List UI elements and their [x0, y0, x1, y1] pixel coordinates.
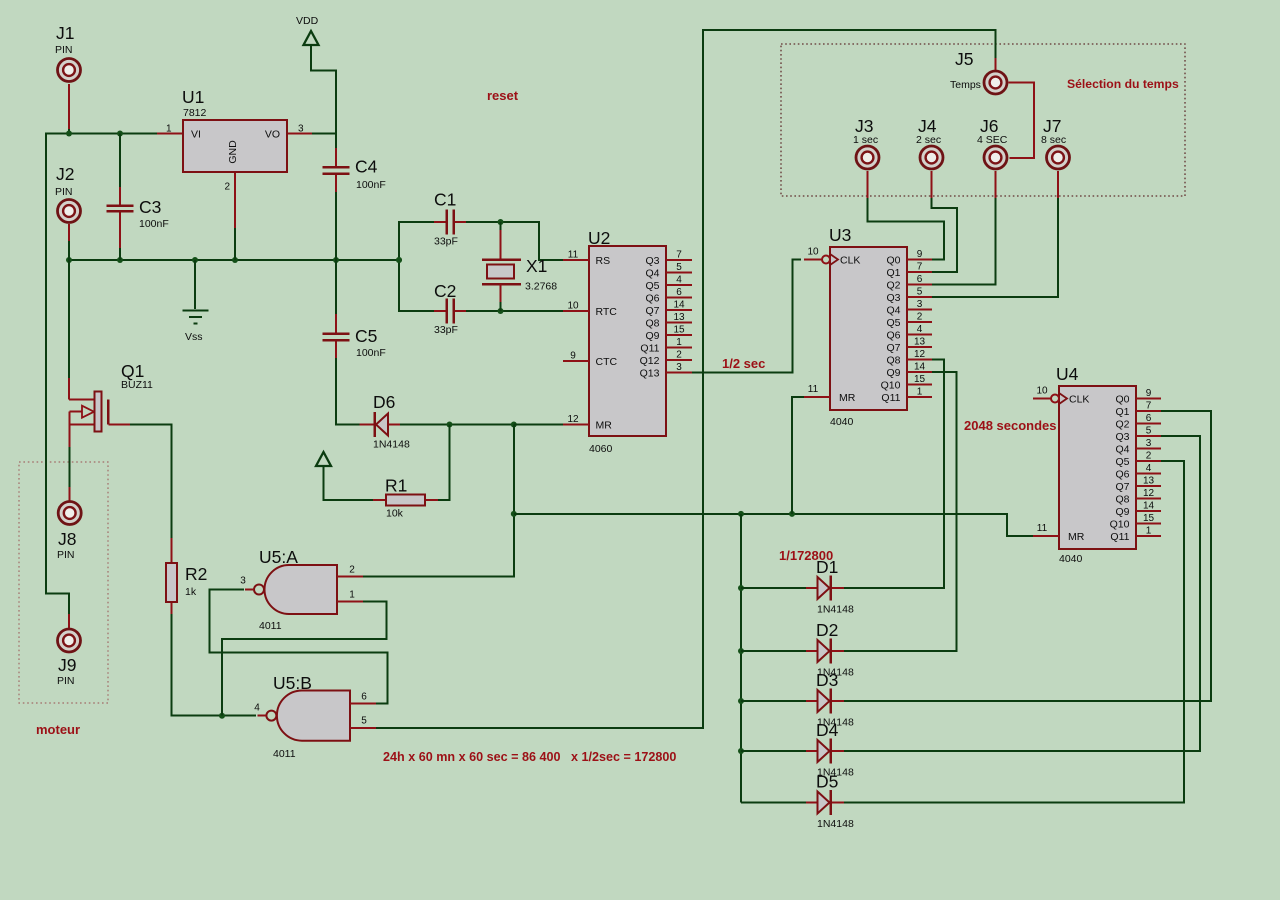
capacitor C1 33pF [434, 190, 466, 248]
svg-text:4040: 4040 [1059, 553, 1083, 565]
svg-text:2: 2 [224, 182, 230, 193]
diode D4 1N4148 [806, 720, 854, 779]
resistor R2 1k [166, 538, 207, 614]
power VDD arrow near R1 [316, 452, 331, 466]
svg-text:C3: C3 [139, 197, 161, 217]
wire U3 Q9 down to D2 cathode [844, 372, 957, 651]
capacitor C3 100nF [107, 187, 169, 248]
annotation timing formula [383, 750, 676, 764]
annotation moteur [36, 722, 80, 737]
svg-text:3: 3 [1146, 438, 1152, 449]
svg-text:D4: D4 [816, 720, 839, 740]
svg-text:1: 1 [1146, 526, 1152, 537]
svg-text:Q12: Q12 [640, 355, 660, 367]
svg-text:6: 6 [917, 274, 923, 285]
svg-text:U5:A: U5:A [259, 547, 298, 567]
svg-text:14: 14 [1143, 501, 1155, 512]
svg-text:33pF: 33pF [434, 236, 458, 248]
svg-text:2: 2 [676, 350, 682, 361]
wire C3 top lead [119, 134, 121, 188]
wire U3 MR riser [792, 397, 805, 514]
wire C1 right to X1 top and U2 RS [466, 219, 563, 260]
svg-text:1N4148: 1N4148 [817, 818, 854, 830]
svg-text:1N4148: 1N4148 [817, 604, 854, 616]
wire U3 Q8 down to D1 cathode [844, 360, 944, 589]
NAND gate U5:B 4011 [254, 673, 376, 760]
svg-text:2: 2 [1146, 451, 1152, 462]
svg-text:Q8: Q8 [886, 354, 900, 366]
wire U2 Q13 to U3 CLK (1/2 sec net) [692, 260, 801, 373]
svg-text:9: 9 [1146, 388, 1152, 399]
svg-text:Q4: Q4 [886, 304, 900, 316]
svg-text:MR: MR [1068, 531, 1085, 543]
svg-text:J8: J8 [58, 529, 76, 549]
svg-text:VDD: VDD [296, 15, 319, 27]
svg-text:D5: D5 [816, 772, 838, 792]
svg-text:2048 secondes: 2048 secondes [964, 418, 1057, 433]
svg-text:J6: J6 [980, 116, 998, 136]
wire U5:B output to U5:A pin1 feedback [222, 602, 387, 716]
svg-text:4011: 4011 [259, 620, 282, 632]
svg-text:7: 7 [917, 262, 923, 273]
svg-text:14: 14 [673, 300, 685, 311]
svg-text:5: 5 [676, 262, 682, 273]
svg-text:Q1: Q1 [886, 267, 900, 279]
annotation Selection du temps [1067, 77, 1179, 91]
wire net J1 to U1 VI input (top left rail) [46, 129, 157, 614]
resistor R1 10k [373, 476, 438, 520]
connector J8 [57, 487, 81, 561]
svg-text:12: 12 [914, 349, 926, 360]
regulator U1 7812 [157, 87, 312, 228]
svg-text:J4: J4 [918, 116, 937, 136]
svg-text:100nF: 100nF [139, 218, 169, 230]
svg-text:15: 15 [914, 374, 926, 385]
wire U1 pin2 GND to bus [234, 228, 236, 260]
diode D3 1N4148 [806, 670, 854, 729]
svg-text:2 sec: 2 sec [916, 134, 941, 146]
wire U4 Q3 down to D4 cathode [844, 436, 1200, 751]
NAND gate U5:A 4011 [240, 547, 363, 632]
wire C4 bottom to bus [335, 192, 337, 260]
wire J2 to Q1 drain [68, 241, 70, 378]
svg-text:U4: U4 [1056, 364, 1079, 384]
svg-text:4: 4 [676, 275, 682, 286]
crystal X1 3.2768 [482, 230, 557, 302]
svg-text:Q7: Q7 [645, 305, 659, 317]
svg-text:D3: D3 [816, 670, 838, 690]
wire VDD arrow to U1 VO and C4 [311, 45, 336, 148]
svg-text:CLK: CLK [1069, 393, 1089, 405]
connector J4 [916, 116, 943, 198]
svg-text:U3: U3 [829, 225, 851, 245]
wire oscillator node C1/C2 left leg [396, 222, 434, 311]
svg-text:9: 9 [917, 249, 923, 260]
svg-text:Q13: Q13 [640, 367, 660, 379]
wire D2 anode to diode bus [741, 650, 806, 652]
svg-text:4 SEC: 4 SEC [977, 134, 1008, 146]
svg-text:U5:B: U5:B [273, 673, 312, 693]
connector J7 [1041, 116, 1070, 198]
svg-text:3: 3 [298, 124, 304, 135]
svg-text:33pF: 33pF [434, 324, 458, 336]
IC U4 4040 [1033, 364, 1161, 565]
wire D1 anode to diode bus [741, 587, 806, 589]
wire J3 to U3 Q0 [868, 198, 945, 260]
svg-text:11: 11 [808, 384, 819, 395]
connector J2 [55, 164, 81, 241]
svg-text:U2: U2 [588, 228, 610, 248]
svg-text:J1: J1 [56, 23, 74, 43]
wire C5 bottom to D6 anode row [336, 358, 360, 425]
svg-text:5: 5 [1146, 426, 1152, 437]
connector J5 Temps [950, 49, 1007, 94]
diode D6 1N4148 [360, 392, 410, 451]
svg-text:5: 5 [361, 716, 367, 727]
svg-text:MR: MR [839, 392, 856, 404]
svg-text:13: 13 [1143, 476, 1155, 487]
svg-text:PIN: PIN [55, 186, 73, 198]
capacitor C5 100nF [323, 314, 386, 359]
svg-text:J2: J2 [56, 164, 74, 184]
svg-text:1: 1 [349, 590, 355, 601]
wire D3 anode to diode bus [741, 700, 806, 702]
svg-text:6: 6 [361, 692, 367, 703]
svg-text:CLK: CLK [840, 254, 860, 266]
svg-text:7: 7 [676, 250, 682, 261]
svg-text:24h x 60 mn x 60 sec = 86 400: 24h x 60 mn x 60 sec = 86 400 x 1/2sec =… [383, 750, 676, 764]
svg-text:Q5: Q5 [1115, 456, 1129, 468]
svg-text:Q11: Q11 [1110, 531, 1129, 543]
svg-text:3: 3 [676, 362, 682, 373]
svg-text:15: 15 [673, 325, 685, 336]
svg-text:9: 9 [570, 351, 576, 362]
svg-text:X1: X1 [526, 256, 547, 276]
svg-text:Q9: Q9 [645, 330, 659, 342]
svg-text:RTC: RTC [596, 306, 618, 318]
diode D1 1N4148 [806, 557, 854, 616]
svg-text:Q7: Q7 [1115, 481, 1129, 493]
wire master reset rail y=514 [514, 511, 1033, 536]
svg-text:10: 10 [1036, 386, 1048, 397]
svg-text:7: 7 [1146, 401, 1152, 412]
svg-text:Q3: Q3 [1115, 431, 1129, 443]
wire Q1 source to J8 [69, 447, 71, 487]
svg-text:MR: MR [596, 419, 613, 431]
svg-text:Q6: Q6 [1115, 468, 1129, 480]
svg-text:11: 11 [1037, 523, 1048, 534]
connector J6 [977, 116, 1008, 198]
svg-text:1 sec: 1 sec [853, 134, 878, 146]
wire bus to C5 top [335, 260, 337, 314]
svg-text:6: 6 [1146, 413, 1152, 424]
annotation 1/2 sec [722, 356, 765, 371]
svg-text:1: 1 [676, 337, 682, 348]
svg-text:1: 1 [917, 387, 923, 398]
wire J6 to U3 Q2 [930, 198, 996, 285]
svg-text:Q6: Q6 [886, 329, 900, 341]
svg-text:Q7: Q7 [886, 342, 900, 354]
wire U4 Q1 down to D3 cathode [844, 411, 1211, 701]
svg-text:C4: C4 [355, 157, 378, 177]
svg-text:Q11: Q11 [881, 392, 900, 404]
svg-text:Q0: Q0 [1115, 393, 1129, 405]
svg-text:10: 10 [807, 247, 819, 258]
svg-text:Q2: Q2 [886, 279, 900, 291]
svg-text:R2: R2 [185, 564, 207, 584]
wire R2 bottom to U5:B output [172, 614, 257, 719]
svg-text:11: 11 [568, 250, 579, 261]
wire D6 cathode to MR junction [400, 422, 564, 428]
svg-text:Q8: Q8 [1115, 493, 1129, 505]
svg-text:12: 12 [1143, 488, 1155, 499]
wire J5 jumper bracket to J6 [1009, 83, 1035, 159]
svg-text:13: 13 [914, 337, 926, 348]
svg-text:1N4148: 1N4148 [373, 439, 410, 451]
svg-text:1/2 sec: 1/2 sec [722, 356, 765, 371]
wire diode common bus x=741 [738, 514, 744, 803]
svg-text:8 sec: 8 sec [1041, 134, 1066, 146]
svg-text:Q4: Q4 [645, 267, 659, 279]
svg-text:U1: U1 [182, 87, 204, 107]
svg-text:13: 13 [673, 312, 685, 323]
svg-text:C5: C5 [355, 326, 377, 346]
svg-text:RS: RS [596, 255, 611, 267]
wire C3 bottom to bus [119, 248, 121, 260]
svg-text:1: 1 [166, 124, 172, 135]
svg-text:Q0: Q0 [886, 254, 900, 266]
svg-text:6: 6 [676, 287, 682, 298]
moteur dashed box [19, 462, 108, 703]
capacitor C2 33pF [434, 281, 466, 336]
connector J1 [55, 23, 81, 129]
svg-text:100nF: 100nF [356, 179, 386, 191]
svg-text:4: 4 [917, 324, 923, 335]
svg-text:D6: D6 [373, 392, 395, 412]
wire VSS ground stem [194, 260, 196, 309]
svg-text:Q5: Q5 [645, 280, 659, 292]
wire VSS ground bus y=260 [66, 257, 402, 263]
annotation 2048 secondes [964, 418, 1057, 433]
svg-text:Q10: Q10 [1110, 518, 1130, 530]
svg-text:2: 2 [349, 565, 355, 576]
power VDD arrow top [296, 15, 319, 45]
wire R1 left leg to VDD arrow [324, 466, 374, 500]
svg-text:4: 4 [254, 703, 260, 714]
svg-text:14: 14 [914, 362, 926, 373]
capacitor C4 100nF [323, 148, 386, 192]
connector J9 [57, 614, 81, 687]
svg-text:R1: R1 [385, 476, 407, 496]
svg-text:J9: J9 [58, 655, 76, 675]
svg-text:C1: C1 [434, 190, 456, 210]
svg-text:Q9: Q9 [1115, 506, 1129, 518]
wire reset net U5:B pin5 to J5 [376, 30, 996, 728]
wire MR net down to U5:A pin2 [361, 425, 517, 577]
svg-text:VO: VO [265, 129, 280, 141]
svg-text:Q5: Q5 [886, 317, 900, 329]
svg-text:moteur: moteur [36, 722, 80, 737]
IC U2 4060 [563, 228, 692, 455]
wire J7 to U3 Q3 [930, 198, 1058, 297]
svg-text:2: 2 [917, 312, 923, 323]
svg-text:PIN: PIN [55, 44, 73, 56]
svg-text:PIN: PIN [57, 675, 75, 687]
wire R1 right leg up to MR row [438, 425, 450, 501]
svg-text:4011: 4011 [273, 748, 296, 760]
diode D5 1N4148 [806, 772, 854, 831]
svg-text:10: 10 [567, 301, 579, 312]
wire D5 anode to diode bus [741, 802, 806, 804]
svg-text:Sélection du temps: Sélection du temps [1067, 77, 1179, 91]
svg-text:C2: C2 [434, 281, 456, 301]
svg-text:reset: reset [487, 88, 519, 103]
svg-text:Q4: Q4 [1115, 443, 1129, 455]
svg-text:GND: GND [227, 140, 239, 164]
svg-text:Q11: Q11 [640, 342, 659, 354]
svg-text:Q10: Q10 [881, 379, 901, 391]
svg-text:BUZ11: BUZ11 [121, 379, 153, 391]
svg-text:Q3: Q3 [886, 292, 900, 304]
svg-text:Q3: Q3 [645, 255, 659, 267]
wire J4 to U3 Q1 [930, 198, 957, 272]
wire C2 right to X1 bottom and U2 RTC [466, 302, 563, 314]
selection du temps dashed box [781, 44, 1185, 196]
svg-text:VI: VI [191, 129, 201, 141]
svg-text:15: 15 [1143, 513, 1155, 524]
svg-text:Vss: Vss [185, 331, 203, 343]
annotation 1/172800 [779, 548, 833, 563]
svg-text:10k: 10k [386, 508, 404, 520]
svg-text:5: 5 [917, 287, 923, 298]
svg-text:1/172800: 1/172800 [779, 548, 833, 563]
svg-text:3.2768: 3.2768 [525, 281, 557, 293]
wire D4 anode to diode bus [741, 750, 806, 752]
svg-text:7812: 7812 [183, 107, 207, 119]
svg-text:CTC: CTC [596, 356, 618, 368]
svg-text:3: 3 [917, 299, 923, 310]
svg-text:Q6: Q6 [645, 292, 659, 304]
svg-text:PIN: PIN [57, 549, 75, 561]
svg-text:100nF: 100nF [356, 347, 386, 359]
connector J3 [853, 116, 879, 198]
svg-text:Q9: Q9 [886, 367, 900, 379]
annotation reset [487, 88, 519, 103]
svg-text:J3: J3 [855, 116, 873, 136]
wire U4 Q5 down to D5 cathode [844, 461, 1184, 803]
svg-text:1k: 1k [185, 586, 197, 598]
ground Vss symbol [183, 311, 209, 344]
transistor Q1 BUZ11 [69, 361, 153, 447]
svg-text:4: 4 [1146, 463, 1152, 474]
svg-text:3: 3 [240, 576, 246, 587]
diode D2 1N4148 [806, 620, 854, 679]
wire Q1 gate to R2 [130, 425, 172, 539]
svg-text:Q1: Q1 [1115, 406, 1129, 418]
wire U5:A output to U5:B pin6 feedback [210, 590, 388, 704]
svg-text:Q2: Q2 [1115, 418, 1129, 430]
svg-text:12: 12 [567, 414, 579, 425]
svg-text:4040: 4040 [830, 416, 854, 428]
svg-text:Temps: Temps [950, 79, 981, 91]
svg-text:D2: D2 [816, 620, 838, 640]
svg-text:J5: J5 [955, 49, 973, 69]
svg-text:Q1: Q1 [121, 361, 144, 381]
svg-text:J7: J7 [1043, 116, 1061, 136]
IC U3 4040 [804, 225, 932, 428]
svg-text:4060: 4060 [589, 443, 613, 455]
svg-text:Q8: Q8 [645, 317, 659, 329]
